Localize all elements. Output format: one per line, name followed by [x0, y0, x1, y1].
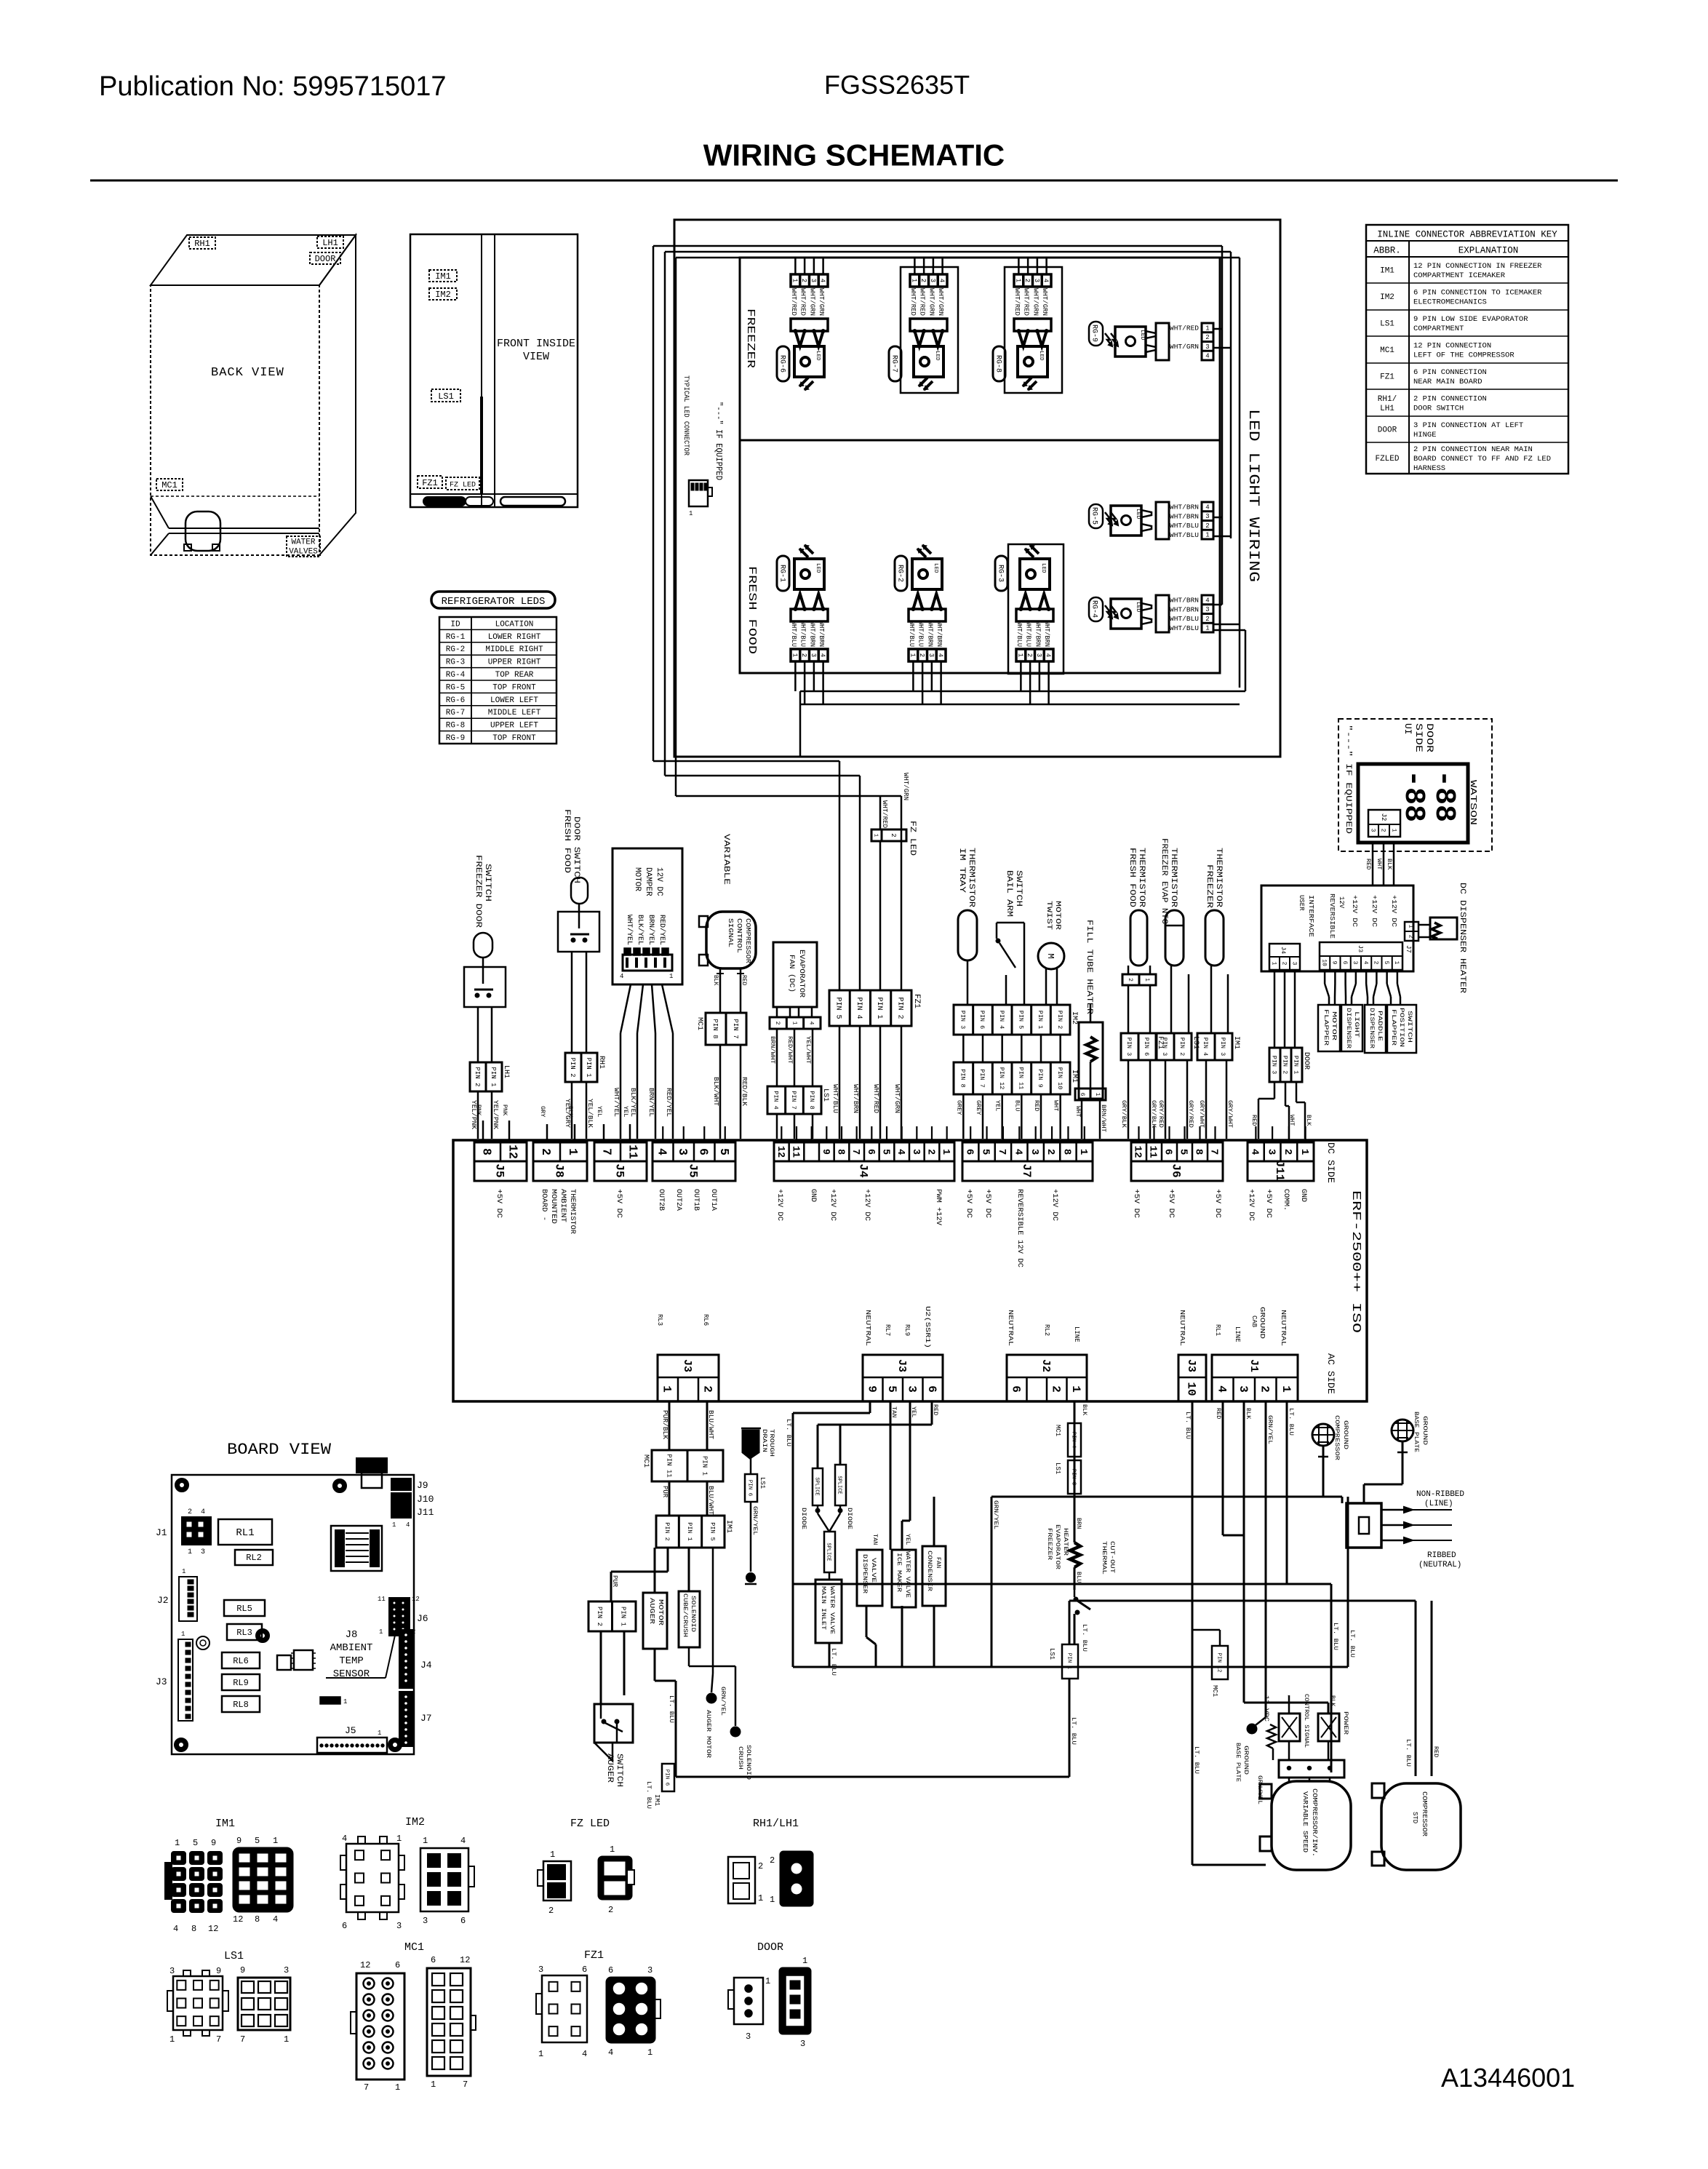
board view relay RL2 — [235, 1550, 273, 1565]
svg-text:PIN 8: PIN 8 — [711, 1019, 719, 1038]
svg-text:6: 6 — [1079, 1093, 1085, 1097]
svg-text:GRN/YEL: GRN/YEL — [719, 1687, 727, 1716]
svg-text:WATER VALVE: WATER VALVE — [829, 1586, 836, 1634]
svg-text:SOLENOID: SOLENOID — [690, 1596, 696, 1632]
svg-text:OUT1A: OUT1A — [709, 1189, 717, 1211]
svg-text:9 PIN LOW SIDE EVAPORATOR: 9 PIN LOW SIDE EVAPORATOR — [1413, 315, 1528, 324]
svg-text:CUBE/CRUSH: CUBE/CRUSH — [682, 1593, 688, 1637]
svg-text:6: 6 — [865, 1149, 876, 1155]
svg-text:1: 1 — [1069, 1385, 1082, 1393]
svg-text:YEL/PNK: YEL/PNK — [492, 1100, 499, 1130]
svg-text:LT. BLU: LT. BLU — [1332, 1623, 1339, 1650]
compressor in back view — [184, 512, 220, 551]
svg-text:IM1: IM1 — [435, 271, 451, 282]
svg-text:12: 12 — [1132, 1145, 1144, 1158]
svg-text:MOTOR: MOTOR — [1053, 901, 1061, 930]
board connector J6 — [1131, 1142, 1223, 1181]
LED RG-5 module — [1089, 502, 1213, 539]
svg-text:3: 3 — [1265, 1149, 1277, 1155]
svg-text:2: 2 — [701, 1385, 714, 1393]
svg-text:WHT/RED: WHT/RED — [799, 288, 807, 316]
svg-text:PNK: PNK — [501, 1105, 508, 1116]
svg-text:"---" IF EQUIPPED: "---" IF EQUIPPED — [714, 402, 724, 480]
svg-text:RG-5: RG-5 — [446, 683, 465, 692]
svg-text:LIGHT: LIGHT — [1353, 1011, 1360, 1038]
LS1 pin 6 connector drain — [745, 1458, 766, 1584]
svg-text:IM1: IM1 — [1070, 1070, 1078, 1083]
svg-text:-88: -88 — [1427, 770, 1460, 822]
LS1 connector view B — [238, 1965, 290, 2045]
svg-text:DIODE: DIODE — [846, 1508, 853, 1529]
svg-text:8: 8 — [1061, 1149, 1073, 1155]
AC bus wire lower — [793, 1666, 1348, 1668]
wires J3 to dispenser components — [1325, 970, 1400, 1005]
svg-text:EXPLANATION: EXPLANATION — [1458, 245, 1519, 255]
svg-text:SWITCH: SWITCH — [1406, 1011, 1413, 1043]
svg-text:BLU: BLU — [1075, 1572, 1082, 1583]
svg-text:4: 4 — [1205, 353, 1209, 360]
svg-text:RG-9: RG-9 — [1090, 325, 1098, 342]
svg-text:DISPENSER: DISPENSER — [1345, 1008, 1352, 1048]
LED RG-4 module — [1089, 595, 1213, 632]
svg-text:4: 4 — [608, 2047, 613, 2058]
svg-text:WHT/BLU: WHT/BLU — [799, 621, 807, 647]
svg-text:BLK: BLK — [1081, 1404, 1088, 1416]
svg-text:RL3: RL3 — [236, 1628, 252, 1638]
svg-text:BLK: BLK — [1305, 1115, 1312, 1126]
board view J3 connector — [156, 1631, 193, 1721]
svg-text:8: 8 — [255, 1914, 260, 1925]
svg-text:RG-7: RG-7 — [890, 355, 898, 373]
svg-text:12: 12 — [506, 1145, 519, 1159]
svg-text:PIN 1: PIN 1 — [585, 1057, 592, 1077]
12V DC damper motor — [612, 848, 682, 984]
svg-text:+5V DC: +5V DC — [1132, 1189, 1140, 1218]
svg-text:3: 3 — [1369, 829, 1376, 832]
svg-text:1: 1 — [765, 1976, 770, 1986]
svg-text:LT. BLU: LT. BLU — [1193, 1746, 1200, 1774]
svg-text:WHT/BRN: WHT/BRN — [1170, 513, 1199, 520]
LED RG-7 enclosure — [901, 267, 958, 393]
IM1 connector view A — [165, 1838, 222, 1934]
svg-text:COMPRESSOR/INV.: COMPRESSOR/INV. — [1311, 1788, 1318, 1857]
fill tube heater — [1074, 920, 1107, 1139]
svg-text:LS1: LS1 — [224, 1950, 244, 1962]
svg-text:WHT/BLU: WHT/BLU — [1025, 621, 1032, 647]
svg-text:GRY/WHT: GRY/WHT — [1198, 1100, 1205, 1128]
svg-text:2: 2 — [1258, 1385, 1271, 1393]
svg-text:+5V DC: +5V DC — [615, 1189, 623, 1218]
splice diode network — [785, 1401, 939, 1667]
MC1 inline connector pins 8 7 — [695, 1013, 746, 1045]
flapper motor — [1318, 1005, 1340, 1051]
svg-text:MC1: MC1 — [1054, 1425, 1061, 1436]
svg-text:3: 3 — [905, 1385, 918, 1393]
svg-text:BLK/YEL: BLK/YEL — [629, 1088, 636, 1117]
svg-text:REVERSIBLE: REVERSIBLE — [1328, 894, 1336, 939]
svg-text:RG-3: RG-3 — [997, 565, 1005, 582]
svg-text:RIBBED: RIBBED — [1427, 1551, 1456, 1560]
wires BLK/WHT RED/BLK to board — [712, 1045, 748, 1139]
svg-text:4: 4 — [1042, 279, 1050, 282]
LH1 label back view — [317, 236, 343, 248]
svg-text:AMBIENT: AMBIENT — [330, 1642, 373, 1654]
svg-text:COMM.: COMM. — [1282, 1189, 1290, 1211]
svg-text:PIN 2: PIN 2 — [474, 1067, 481, 1086]
LED light wiring inner box — [740, 258, 1220, 673]
svg-text:2: 2 — [758, 1861, 763, 1871]
svg-text:VARIABLE: VARIABLE — [722, 834, 730, 885]
stub wires above J5 J8 connectors — [475, 1105, 630, 1142]
svg-text:YEL/WHT: YEL/WHT — [805, 1036, 812, 1064]
compressor ground symbol — [1312, 1415, 1349, 1497]
svg-text:RG-4: RG-4 — [1090, 600, 1098, 618]
door connector wires to board J11 — [1250, 1082, 1312, 1139]
wire WHT/BRN drop to board — [852, 776, 860, 1139]
svg-text:LEFT OF THE COMPRESSOR: LEFT OF THE COMPRESSOR — [1413, 351, 1515, 360]
svg-text:2 PIN CONNECTION: 2 PIN CONNECTION — [1413, 395, 1487, 404]
fresh food thermistor wires — [1120, 1060, 1157, 1139]
svg-text:HARNESS: HARNESS — [1413, 464, 1445, 473]
svg-text:WHT/BLU: WHT/BLU — [1015, 621, 1023, 647]
svg-text:RED/YEL: RED/YEL — [658, 915, 666, 945]
svg-text:"---" IF EQUIPPED: "---" IF EQUIPPED — [1344, 725, 1352, 835]
svg-text:7: 7 — [996, 1149, 1007, 1155]
svg-text:RG-9: RG-9 — [446, 734, 465, 743]
svg-text:GROUND: GROUND — [1342, 1420, 1349, 1449]
svg-text:MC1: MC1 — [642, 1454, 650, 1468]
svg-text:2: 2 — [1023, 279, 1031, 282]
svg-text:FREEZER EVAP NTC: FREEZER EVAP NTC — [1160, 838, 1168, 924]
svg-text:LS1: LS1 — [1048, 1648, 1055, 1660]
svg-text:9: 9 — [865, 1385, 878, 1393]
svg-text:11: 11 — [378, 1596, 386, 1603]
svg-text:HINGE: HINGE — [1413, 431, 1437, 439]
BLK wire J1 to power module — [1244, 1401, 1336, 1714]
board AC connector J1 — [1212, 1307, 1298, 1401]
svg-text:AUGER MOTOR: AUGER MOTOR — [705, 1710, 712, 1758]
svg-text:1: 1 — [1094, 1093, 1101, 1097]
svg-text:LOWER RIGHT: LOWER RIGHT — [488, 633, 541, 642]
svg-text:PIN 2: PIN 2 — [663, 1522, 671, 1541]
svg-text:LED: LED — [815, 563, 821, 573]
svg-text:WHT: WHT — [1376, 859, 1383, 869]
svg-text:YEL: YEL — [904, 1534, 911, 1545]
svg-text:IM TRAY: IM TRAY — [957, 848, 966, 894]
svg-text:J3: J3 — [895, 1359, 908, 1372]
svg-text:PIN 11: PIN 11 — [665, 1454, 672, 1477]
svg-text:RG-4: RG-4 — [446, 671, 466, 680]
svg-text:6: 6 — [925, 1385, 938, 1393]
svg-text:1: 1 — [791, 653, 798, 657]
LED RG-6 module — [777, 258, 828, 390]
svg-text:6: 6 — [1009, 1385, 1022, 1393]
svg-text:4: 4 — [819, 653, 826, 657]
svg-text:MC1: MC1 — [161, 480, 177, 490]
svg-text:IM1: IM1 — [725, 1520, 733, 1533]
svg-text:DOOR: DOOR — [1424, 723, 1435, 752]
svg-text:STD: STD — [1411, 1812, 1418, 1823]
svg-text:WHT: WHT — [1074, 1106, 1082, 1117]
svg-text:6: 6 — [697, 1148, 711, 1155]
svg-text:MC1: MC1 — [404, 1941, 424, 1954]
svg-text:12 PIN CONNECTION: 12 PIN CONNECTION — [1413, 342, 1491, 351]
svg-text:NEAR MAIN BOARD: NEAR MAIN BOARD — [1413, 378, 1482, 386]
wire PUR to auger pin strip — [611, 1548, 668, 1601]
svg-text:RED: RED — [1033, 1100, 1040, 1111]
svg-text:4: 4 — [655, 1148, 669, 1155]
svg-text:GRY/RED: GRY/RED — [1187, 1100, 1194, 1128]
svg-text:1: 1 — [909, 653, 916, 657]
svg-text:RED/WHT: RED/WHT — [786, 1036, 794, 1064]
svg-text:7: 7 — [463, 2080, 468, 2090]
svg-text:WHT/BRN: WHT/BRN — [1170, 606, 1199, 613]
svg-text:WHT/RED: WHT/RED — [1170, 325, 1199, 333]
title rule — [90, 180, 1618, 182]
svg-text:(NEUTRAL): (NEUTRAL) — [1418, 1561, 1461, 1569]
svg-text:3: 3 — [284, 1965, 289, 1975]
svg-text:11: 11 — [626, 1145, 639, 1159]
svg-text:6: 6 — [460, 1916, 466, 1926]
MC1 connector view B — [427, 1955, 476, 2090]
svg-text:BRN/WHT: BRN/WHT — [769, 1036, 776, 1064]
svg-text:J7: J7 — [420, 1713, 432, 1724]
svg-text:2: 2 — [1280, 962, 1287, 966]
svg-text:J2: J2 — [1039, 1359, 1052, 1372]
svg-text:YEL: YEL — [596, 1106, 603, 1117]
wire YEL/PNK pair to board — [470, 1091, 499, 1139]
svg-text:2: 2 — [608, 1905, 613, 1915]
svg-text:WHT/BRN: WHT/BRN — [926, 621, 933, 647]
svg-text:FZ1: FZ1 — [584, 1949, 604, 1962]
IM1 pin 6 connector on wire — [653, 1764, 674, 1806]
svg-text:YEL: YEL — [994, 1100, 1002, 1111]
svg-text:1: 1 — [770, 1895, 775, 1905]
svg-text:COMPRESSOR: COMPRESSOR — [744, 918, 751, 964]
svg-text:GRY/WHT: GRY/WHT — [1226, 1100, 1234, 1128]
board connector J11 — [1248, 1142, 1314, 1181]
LS1 inline connector pins 4 7 8 — [767, 1086, 829, 1114]
svg-text:WHT/RED: WHT/RED — [1013, 288, 1021, 316]
svg-text:2: 2 — [800, 279, 807, 282]
variable speed compressor inverter — [1260, 1781, 1351, 1870]
svg-text:YEL: YEL — [910, 1406, 917, 1417]
svg-text:THERMISTOR: THERMISTOR — [1137, 848, 1146, 907]
door side UI label — [1402, 723, 1435, 752]
svg-text:5: 5 — [879, 1149, 890, 1155]
svg-text:J2: J2 — [1380, 813, 1387, 821]
svg-text:LED: LED — [1135, 602, 1141, 613]
svg-text:8: 8 — [191, 1924, 196, 1934]
svg-text:RH1: RH1 — [597, 1056, 605, 1069]
board view relay RL6 — [222, 1652, 260, 1668]
svg-text:LT. BLU: LT. BLU — [1184, 1412, 1192, 1439]
svg-text:WHT/GRN: WHT/GRN — [893, 1084, 901, 1113]
IM1 connector view B — [233, 1836, 292, 1925]
LED RG-9 module — [1089, 322, 1213, 360]
FZ LED connector view B — [599, 1844, 634, 1915]
freezer evaporator heater chain — [1046, 1401, 1116, 1652]
IM harness wires to board — [955, 1094, 1060, 1139]
front inside view grille capsules — [423, 497, 565, 506]
svg-text:TOP REAR: TOP REAR — [495, 671, 534, 680]
svg-text:RL6: RL6 — [233, 1656, 249, 1666]
main control board outline — [453, 1140, 1367, 1401]
DC dispenser heater — [1418, 883, 1466, 993]
LED wiring left drop wires — [653, 246, 901, 796]
svg-text:J2: J2 — [157, 1595, 169, 1606]
svg-text:3: 3 — [647, 1965, 653, 1975]
svg-text:THERMISTOR: THERMISTOR — [1214, 848, 1223, 907]
svg-text:4: 4 — [173, 1924, 178, 1934]
svg-text:1: 1 — [647, 2047, 653, 2058]
board view transformer — [331, 1526, 382, 1571]
svg-text:FAN: FAN — [935, 1557, 942, 1568]
svg-text:LS1: LS1 — [1054, 1462, 1061, 1474]
svg-text:BLK: BLK — [1329, 1695, 1336, 1707]
svg-text:BLK/WHT: BLK/WHT — [712, 1077, 719, 1107]
svg-text:BLK: BLK — [1386, 859, 1393, 870]
svg-text:FZ LED: FZ LED — [908, 821, 917, 856]
FZ1 connector view B — [607, 1965, 661, 2058]
wire WHT/GRN drop to board — [893, 773, 909, 1139]
FZ1 inline connector pins 3 6 — [1121, 1033, 1164, 1060]
svg-text:BASE PLATE: BASE PLATE — [1413, 1412, 1420, 1452]
svg-text:+12V DC: +12V DC — [1390, 895, 1397, 928]
svg-text:BOARD VIEW: BOARD VIEW — [227, 1441, 332, 1459]
svg-text:A13446001: A13446001 — [1441, 2063, 1575, 2093]
svg-text:TWIST: TWIST — [1045, 901, 1053, 930]
J3 connector on user interface — [1320, 942, 1402, 970]
board view relay RL8 — [222, 1696, 260, 1712]
RH1 LH1 connector view B — [770, 1852, 813, 1906]
cube crush solenoid — [679, 1548, 700, 1647]
svg-text:OUT2B: OUT2B — [657, 1189, 665, 1211]
svg-text:IM1: IM1 — [1380, 267, 1394, 276]
svg-text:5: 5 — [193, 1838, 198, 1848]
svg-text:9: 9 — [236, 1836, 242, 1846]
svg-text:PUR/BLK: PUR/BLK — [661, 1410, 669, 1440]
svg-text:6: 6 — [582, 1965, 587, 1975]
reversible 12V user interface board — [1261, 885, 1413, 971]
svg-text:VIEW: VIEW — [523, 351, 549, 363]
svg-text:LT. BLU: LT. BLU — [1288, 1408, 1295, 1436]
svg-text:3: 3 — [810, 279, 817, 282]
svg-text:J7: J7 — [1020, 1163, 1033, 1177]
svg-text:DAMPER: DAMPER — [644, 867, 653, 896]
svg-text:1: 1 — [423, 1836, 428, 1846]
svg-text:LH1: LH1 — [1380, 405, 1394, 413]
LED wiring right bus wires — [1213, 246, 1245, 691]
freezer thermistor — [1205, 848, 1228, 1033]
fresh food thermistor — [1122, 848, 1156, 1033]
svg-text:1: 1 — [873, 834, 879, 837]
valve return wires to bus — [829, 1606, 934, 1676]
svg-text:BASE PLATE: BASE PLATE — [1234, 1743, 1241, 1782]
MC1 connector view A — [351, 1960, 404, 2093]
svg-text:RL3: RL3 — [656, 1314, 663, 1326]
wires MC1 to IM1 connector — [661, 1481, 714, 1516]
svg-text:+12V DC: +12V DC — [863, 1189, 871, 1221]
auger pin strip PIN 2 PIN 1 — [588, 1601, 636, 1631]
svg-text:1: 1 — [1407, 925, 1413, 928]
svg-text:FRESH FOOD: FRESH FOOD — [746, 566, 758, 654]
svg-text:UPPER LEFT: UPPER LEFT — [490, 722, 538, 731]
svg-text:SOLENOID: SOLENOID — [745, 1745, 752, 1780]
board view mounting holes — [175, 1478, 402, 1751]
auger motor ground — [705, 1548, 727, 1758]
svg-text:VARIABLE SPEED: VARIABLE SPEED — [1301, 1791, 1309, 1852]
svg-text:3: 3 — [423, 1916, 428, 1926]
svg-text:2: 2 — [188, 1508, 192, 1516]
svg-text:1: 1 — [566, 1148, 580, 1155]
svg-text:J6: J6 — [1170, 1163, 1183, 1177]
svg-text:1: 1 — [758, 1893, 763, 1903]
svg-text:RL9: RL9 — [233, 1678, 249, 1688]
IM2 connector view A — [340, 1834, 404, 1931]
svg-text:9: 9 — [1331, 961, 1338, 965]
svg-text:PIN 1: PIN 1 — [1037, 1011, 1044, 1030]
svg-text:+12V DC: +12V DC — [1351, 895, 1358, 928]
svg-text:PIN 1: PIN 1 — [686, 1522, 693, 1541]
std compressor — [1372, 1783, 1461, 1870]
freezer evap NTC wires — [1157, 1060, 1194, 1139]
svg-text:2: 2 — [1205, 334, 1209, 341]
LED wiring top bus lines — [653, 246, 1240, 258]
svg-text:TYPICAL LED CONNECTOR: TYPICAL LED CONNECTOR — [682, 375, 690, 455]
svg-text:MC1: MC1 — [1211, 1685, 1218, 1697]
svg-text:1: 1 — [1205, 532, 1209, 539]
svg-text:4: 4 — [937, 653, 944, 657]
svg-text:FGSS2635T: FGSS2635T — [824, 70, 970, 100]
svg-text:RH1: RH1 — [194, 239, 210, 249]
svg-text:1: 1 — [182, 1568, 185, 1575]
svg-text:MC1: MC1 — [1380, 346, 1394, 355]
svg-text:3: 3 — [396, 1921, 402, 1931]
svg-text:1: 1 — [1393, 961, 1400, 965]
svg-text:2: 2 — [1205, 522, 1209, 530]
svg-text:2: 2 — [539, 1148, 553, 1155]
svg-text:WHT/GRN: WHT/GRN — [1041, 288, 1048, 316]
svg-text:BLK: BLK — [712, 975, 719, 986]
svg-text:12V: 12V — [1338, 896, 1345, 909]
svg-text:OUT2A: OUT2A — [674, 1189, 682, 1211]
svg-text:DOOR SWITCH: DOOR SWITCH — [572, 816, 580, 883]
svg-text:GRY/BLK: GRY/BLK — [1120, 1100, 1128, 1129]
svg-text:J4: J4 — [420, 1660, 432, 1671]
svg-text:PIN 6: PIN 6 — [746, 1480, 752, 1497]
svg-text:J3: J3 — [1357, 945, 1364, 952]
svg-text:BLU/WHT: BLU/WHT — [707, 1410, 714, 1440]
svg-text:IM2: IM2 — [435, 290, 451, 300]
svg-text:10: 10 — [1320, 959, 1327, 966]
base plate ground symbol right — [1364, 1412, 1429, 1503]
svg-text:RL8: RL8 — [233, 1700, 249, 1710]
svg-text:LT. BLU: LT. BLU — [1070, 1717, 1077, 1745]
svg-text:WATSON: WATSON — [1468, 780, 1478, 825]
svg-text:1: 1 — [1016, 653, 1023, 657]
svg-text:MOTOR: MOTOR — [657, 1599, 664, 1626]
svg-text:SIGNAL: SIGNAL — [727, 918, 734, 947]
svg-text:LOCATION: LOCATION — [495, 620, 534, 629]
svg-text:BRN/YEL: BRN/YEL — [647, 1088, 655, 1117]
svg-text:2 PIN CONNECTION NEAR MAIN: 2 PIN CONNECTION NEAR MAIN — [1413, 445, 1533, 454]
board AC connector J3 SSR — [863, 1306, 943, 1401]
svg-text:1: 1 — [343, 1698, 347, 1706]
svg-text:+12V DC: +12V DC — [829, 1189, 837, 1221]
svg-text:PIN 4: PIN 4 — [1070, 1432, 1076, 1449]
LT BLU wire J1 neutral to inverter terminal — [793, 1401, 1339, 1772]
